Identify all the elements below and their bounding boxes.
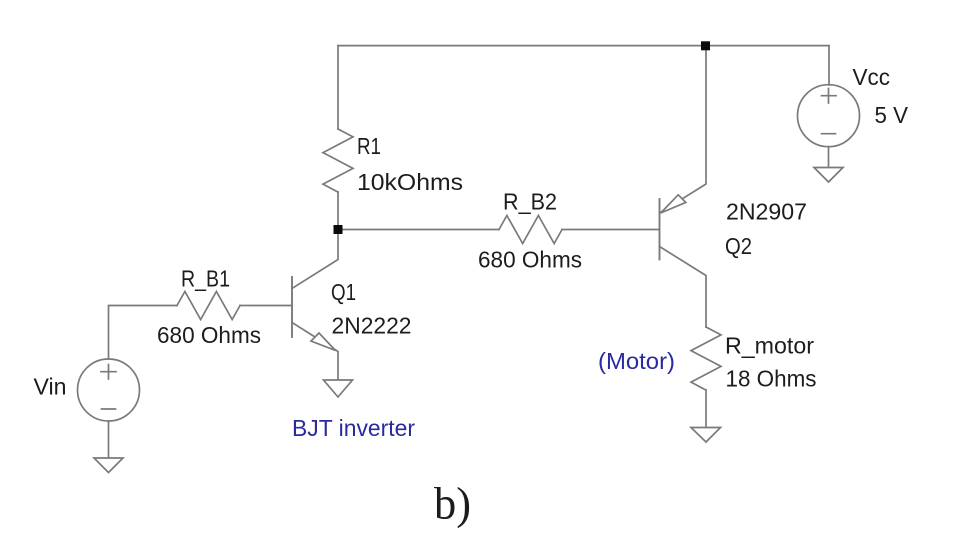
wire Vcc to ground (828, 147, 830, 168)
node junction dot (base of R1 / Q1) (334, 225, 343, 234)
svg-text:BJT inverter: BJT inverter (292, 415, 415, 441)
emitter arrow Q2 (661, 195, 686, 213)
resistor R1 (323, 129, 353, 192)
wire R_B1 to Q1 base (240, 305, 292, 307)
wire R_motor to ground (705, 390, 707, 428)
svg-text:Vcc: Vcc (853, 64, 891, 90)
voltage source Vcc (798, 85, 860, 147)
ground under Vcc (814, 168, 843, 183)
transistor Q2 (659, 199, 661, 260)
ground under Q1 (324, 380, 353, 397)
emitter arrow Q1 (311, 333, 336, 351)
svg-text:680 Ohms: 680 Ohms (478, 247, 582, 273)
wire Q1 collector vertical (292, 230, 338, 289)
wire node to R_B2 (338, 229, 499, 231)
wire Vin to R_B1 (109, 306, 178, 360)
svg-text:R_B2: R_B2 (503, 189, 557, 215)
svg-text:10kOhms: 10kOhms (357, 169, 463, 195)
resistor R_motor (691, 327, 721, 390)
wire R_B2 to Q2 base (562, 229, 660, 231)
svg-text:2N2907: 2N2907 (726, 199, 807, 225)
voltage source Vin (78, 359, 140, 421)
svg-text:Q2: Q2 (725, 233, 752, 259)
wire top rail (338, 45, 829, 47)
transistor Q1 (291, 277, 293, 337)
svg-text:Vin: Vin (34, 374, 67, 400)
svg-text:18 Ohms: 18 Ohms (726, 366, 817, 392)
svg-text:2N2222: 2N2222 (332, 313, 412, 339)
svg-text:R_motor: R_motor (725, 333, 814, 359)
wire rail to Vcc (828, 46, 830, 85)
resistor R_B1 (177, 292, 240, 320)
node junction dot (top rail / Q2 emitter) (701, 41, 710, 50)
wire rail to R1 (337, 46, 339, 129)
svg-text:(Motor): (Motor) (598, 348, 675, 374)
wire R1 to node (337, 192, 339, 230)
ground under R_motor (691, 428, 721, 443)
wire Q2 emitter from rail (660, 46, 707, 213)
svg-text:R1: R1 (357, 133, 381, 159)
svg-text:5 V: 5 V (875, 102, 909, 128)
resistor R_B2 (499, 216, 562, 244)
svg-text:680 Ohms: 680 Ohms (157, 322, 261, 348)
ground under Vin (94, 458, 123, 473)
svg-text:R_B1: R_B1 (181, 266, 230, 292)
wire Vin to ground (108, 421, 110, 458)
svg-text:b): b) (434, 478, 471, 529)
svg-text:Q1: Q1 (331, 279, 356, 305)
